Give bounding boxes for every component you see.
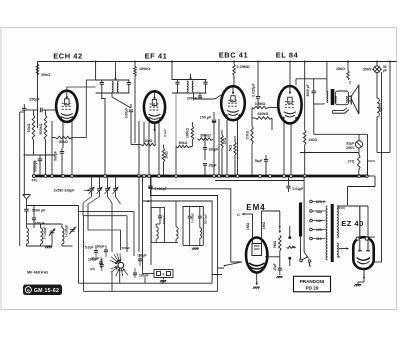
bus terminal 7	[138, 175, 141, 178]
osc coil C	[200, 224, 202, 245]
label EM4	[246, 203, 265, 212]
svg-text:220 V: 220 V	[316, 200, 326, 204]
resistor 5M EM4	[273, 211, 281, 251]
wire lamp drop	[376, 62, 378, 99]
capacitor 3000pF tone	[306, 79, 316, 104]
lamp pilot 350V	[363, 65, 387, 73]
osc bottom rail	[151, 241, 178, 243]
transformer primary taps	[310, 200, 326, 241]
svg-text:(27): (27)	[90, 267, 95, 271]
bus terminal 18	[283, 175, 286, 178]
wire phono left	[143, 270, 155, 274]
resistor 640k	[255, 112, 272, 119]
mains switch	[300, 256, 311, 266]
osc padder capacitor 400pF	[158, 207, 166, 224]
band switch contacts	[110, 253, 128, 276]
tube V2 EF41	[144, 91, 166, 122]
wire EM4 cathode	[255, 273, 258, 286]
capacitor 0.01uF below bus	[286, 176, 303, 192]
osc loop A frame	[151, 207, 164, 242]
wire osc top	[34, 110, 46, 115]
resistor 0.5k EBC41	[245, 118, 253, 176]
tube V6 EZ40 rectifier	[353, 237, 373, 269]
svg-text:180μF: 180μF	[88, 258, 98, 262]
bus terminal 5	[71, 175, 74, 178]
svg-text:47Ω: 47Ω	[223, 137, 227, 144]
capacitor 100uF switch b	[91, 257, 103, 269]
T1 right capacitor	[127, 80, 131, 93]
osc loop C frame	[183, 207, 203, 246]
capacitor 100uF cathode	[200, 112, 216, 176]
svg-text:GM 15-62: GM 15-62	[34, 288, 59, 294]
variable capacitor tuning gang	[89, 176, 119, 197]
trimmer 7-130pF b	[65, 225, 76, 238]
trimmer 7-130pF a	[43, 227, 55, 240]
svg-text:F: F	[163, 272, 165, 276]
arrow cathode EF41	[153, 123, 156, 132]
wire phono drop	[145, 278, 166, 284]
ground EZ40	[354, 279, 364, 286]
wire rail drop 0.025uF	[257, 62, 259, 97]
speaker cone	[349, 85, 359, 114]
tube V1 ECH42	[56, 91, 78, 122]
capacitor 5000pF antenna	[24, 206, 46, 228]
wire HT top	[337, 206, 368, 244]
capacitor 0.05uF	[125, 104, 135, 145]
bus terminal 3	[51, 175, 54, 178]
label EF41	[145, 52, 168, 61]
svg-text:300kΩ: 300kΩ	[200, 134, 211, 138]
wire pot to switch	[224, 262, 242, 267]
wire left drop from rail	[37, 62, 39, 129]
resistor 300k	[198, 134, 214, 141]
wire EM4 top leads	[250, 211, 280, 238]
IF transformer T2 frame	[172, 80, 207, 94]
wire bus end drop	[368, 161, 376, 176]
svg-text:PD 29: PD 29	[306, 286, 319, 291]
svg-text:27Ω: 27Ω	[348, 160, 355, 164]
transformer heater winding	[337, 243, 338, 257]
headphone jack	[333, 108, 349, 113]
wire cap to 0.5M	[257, 98, 259, 107]
tube V3 EBC41	[221, 86, 245, 120]
svg-text:1MΩ: 1MΩ	[165, 151, 169, 159]
IF transformer T1 frame	[96, 80, 130, 93]
wire anode to OT	[296, 62, 327, 92]
wire left column	[22, 104, 26, 196]
wire rail drop EL84 grid	[289, 62, 291, 87]
label EZ40	[341, 219, 364, 228]
T2 tuning arrow	[189, 74, 192, 81]
bus terminal 19	[290, 175, 293, 178]
wire return loop 2	[151, 196, 224, 269]
capacitor 0.025uF coupling	[252, 83, 261, 99]
capacitor 25pF	[203, 164, 217, 177]
field coil 400ohm	[377, 98, 383, 117]
svg-text:400μF: 400μF	[162, 215, 166, 224]
resistor 500k osc	[39, 115, 47, 140]
capacitor switch d	[133, 268, 149, 278]
svg-text:100μF: 100μF	[95, 245, 105, 249]
wire EL84 grid link	[252, 108, 278, 131]
transformer primary winding	[326, 206, 328, 260]
rail junction dots	[95, 61, 391, 63]
svg-text:0.1μF: 0.1μF	[163, 129, 167, 137]
svg-text:25μF: 25μF	[273, 263, 277, 270]
bus terminal 12	[213, 175, 216, 178]
band switch hub	[118, 262, 124, 268]
bus terminal 9	[148, 175, 151, 178]
osc feed arrow	[146, 200, 152, 203]
svg-text:500kΩ: 500kΩ	[39, 123, 43, 134]
svg-text:5kμF: 5kμF	[255, 159, 263, 163]
svg-text:0.05μF: 0.05μF	[125, 108, 129, 118]
wire EZ40 to B+	[368, 72, 382, 262]
resistor 5k	[228, 142, 236, 155]
svg-text:250V: 250V	[346, 146, 355, 150]
EM4 grid arrow C	[237, 213, 250, 217]
svg-text:25pF: 25pF	[209, 164, 217, 168]
bus terminal 4	[62, 175, 65, 178]
osc trimmer 7-30pF	[188, 207, 195, 246]
capacitor 25uF EM4	[273, 263, 283, 278]
svg-text:100pF: 100pF	[35, 222, 46, 226]
gang crisscross	[83, 197, 121, 205]
resistor 30k top left	[36, 64, 50, 77]
antenna coil 1	[27, 228, 29, 246]
resistor 1M AVC	[141, 139, 156, 146]
svg-text:25kΩ: 25kΩ	[336, 67, 345, 71]
wire dropper x142	[142, 176, 144, 270]
wire rail drop to T2	[171, 62, 173, 81]
svg-text:μF: μF	[383, 69, 387, 73]
capacitor 180pF b	[88, 258, 104, 272]
resistor 1M EM4 a	[246, 223, 250, 231]
svg-text:C: C	[237, 213, 240, 217]
bus terminal 13	[218, 175, 221, 178]
svg-text:500μF: 500μF	[122, 246, 131, 250]
svg-text:180pF: 180pF	[209, 148, 219, 152]
wire HT top b	[337, 206, 360, 237]
bus terminal 22	[366, 175, 369, 178]
antenna coil 3	[62, 224, 64, 246]
speaker voice coil	[350, 95, 352, 104]
resistor 150k screen EF41	[134, 66, 151, 76]
transformer secondary winding	[337, 206, 338, 238]
wire EM4 right link	[265, 251, 280, 268]
svg-text:0.25MΩ: 0.25MΩ	[237, 65, 250, 69]
wire EZ40 plate leads	[359, 206, 361, 237]
T2 right capacitor	[203, 80, 207, 94]
resistor 47 ohm	[221, 135, 227, 148]
T2 primary coil	[187, 81, 188, 92]
T2 secondary coil	[192, 81, 193, 92]
bus terminal 1	[33, 175, 36, 178]
wire rail drop to T1	[95, 62, 97, 81]
svg-text:140: 140	[316, 219, 322, 223]
volume pot	[287, 226, 297, 266]
label EBC41	[219, 51, 248, 60]
capacitor 5000pF osc	[33, 155, 42, 176]
transformer core	[331, 204, 334, 262]
osc coil B	[176, 201, 178, 242]
wire top B+ rail	[38, 61, 397, 63]
capacitor 100pF antenna	[27, 206, 46, 229]
band switch feed loops	[79, 203, 135, 256]
svg-text:ECH 42: ECH 42	[53, 52, 82, 61]
tube V5 EM4 magic eye	[246, 238, 267, 273]
svg-text:PRANDONI: PRANDONI	[300, 279, 325, 284]
svg-text:7÷130μF: 7÷130μF	[43, 227, 47, 240]
svg-text:0.025μF: 0.025μF	[252, 83, 256, 97]
capacitor 100uF switch c	[137, 254, 147, 267]
bus terminal 15	[236, 175, 239, 178]
svg-text:0.5MΩ: 0.5MΩ	[255, 102, 266, 106]
wire OT bottom	[314, 103, 324, 104]
svg-text:140Ω: 140Ω	[309, 138, 318, 142]
wire coil tops	[27, 223, 63, 225]
wire antenna coupling	[27, 206, 79, 284]
svg-text:30kΩ: 30kΩ	[41, 73, 50, 77]
svg-text:50kΩ: 50kΩ	[59, 140, 68, 144]
wire T1 to EF41 grid	[112, 93, 131, 108]
svg-text:150 μF: 150 μF	[200, 115, 212, 119]
wire return loop 3	[143, 201, 223, 275]
svg-text:30kΩ: 30kΩ	[27, 123, 31, 132]
wire h180 below bus	[215, 176, 309, 259]
svg-text:1MΩ: 1MΩ	[246, 223, 250, 231]
svg-text:EZ 40: EZ 40	[341, 219, 364, 228]
svg-text:250pF: 250pF	[29, 98, 40, 102]
svg-text:110: 110	[316, 237, 322, 241]
resistor 50k mixer	[55, 136, 72, 144]
output transformer secondary	[336, 96, 348, 102]
resistor 1M EM4 b	[262, 222, 266, 230]
svg-text:7÷30μF: 7÷30μF	[190, 213, 194, 223]
T1 tuning arrow	[114, 62, 117, 81]
ground antenna coils	[27, 233, 53, 249]
wire h155	[24, 154, 56, 156]
T1 left capacitor	[100, 80, 104, 93]
T1 primary coil	[112, 82, 113, 93]
svg-text:7÷130μF: 7÷130μF	[65, 225, 69, 238]
svg-text:350V: 350V	[363, 68, 372, 72]
speaker frame can	[335, 91, 348, 105]
svg-text:0.01μF: 0.01μF	[293, 187, 304, 191]
svg-text:150kΩ: 150kΩ	[139, 67, 150, 71]
bus terminal 8	[143, 175, 146, 178]
svg-text:EBC 41: EBC 41	[219, 51, 248, 60]
svg-text:5MΩ: 5MΩ	[273, 241, 277, 249]
wire below bus right	[348, 176, 376, 205]
osc ground	[192, 248, 199, 250]
antenna coil 2	[41, 224, 43, 246]
resistor 25k tone	[336, 62, 352, 85]
svg-text:0.5kΩ: 0.5kΩ	[245, 130, 249, 139]
resistor 30k osc	[27, 115, 35, 140]
text gang caps	[54, 189, 90, 193]
capacitor 32uF electrolytic	[346, 134, 363, 152]
wire dropper x139	[138, 176, 140, 252]
wire transformer bottom	[301, 256, 341, 257]
tube V4 EL84	[278, 86, 302, 123]
wire right border drop	[377, 62, 390, 153]
resistor 1M vert	[162, 129, 168, 162]
wire EL84 right column	[304, 62, 306, 177]
capacitor 100uF switch a	[95, 245, 108, 258]
wire field coil down	[376, 117, 378, 153]
text MF 468	[27, 271, 48, 275]
T2 left capacitor	[175, 80, 179, 94]
electrolytic T30uF	[148, 176, 167, 196]
svg-text:640kΩ: 640kΩ	[258, 112, 269, 116]
wire EBC41 pin drops	[205, 119, 238, 176]
svg-text:5kΩ: 5kΩ	[228, 144, 232, 151]
wire EL84 pin drops	[284, 122, 291, 177]
T1 secondary coil	[117, 82, 118, 93]
resistor 100k vert	[186, 126, 194, 140]
svg-text:2x530 3x8μF: 2x530 3x8μF	[54, 189, 76, 193]
svg-text:50kΩ: 50kΩ	[179, 141, 188, 145]
wire EZ40 cathode out	[363, 269, 366, 280]
wire bottom h283	[79, 269, 213, 284]
wire ECH42 pin drops	[34, 121, 72, 177]
bus terminal 11	[175, 175, 178, 178]
ground antenna 2	[62, 245, 73, 247]
ground EM4	[253, 287, 260, 289]
output transformer primary	[327, 92, 328, 103]
bus terminal 16	[259, 175, 262, 178]
mains plug	[299, 203, 302, 257]
wire T2 sec to diode	[194, 93, 221, 99]
phono socket box	[154, 270, 173, 285]
capacitor 200pF detector	[187, 93, 202, 101]
svg-text:160: 160	[316, 210, 322, 214]
wire osc feedback	[72, 80, 96, 138]
wire EF41 pin drops	[135, 93, 192, 176]
heater arrow	[339, 247, 349, 250]
wire rail drop x135	[134, 62, 136, 144]
svg-text:125: 125	[316, 228, 322, 232]
resistor 27ohm	[348, 153, 360, 177]
svg-text:500pF: 500pF	[54, 151, 58, 161]
bus label FTe	[32, 179, 38, 183]
antenna	[23, 195, 31, 207]
osc coil A	[156, 224, 160, 242]
svg-text:MF 468 KHz: MF 468 KHz	[27, 271, 48, 275]
output transformer core	[331, 89, 335, 105]
wire bottom h291	[84, 216, 218, 292]
wire outer left column	[20, 112, 25, 246]
svg-text:3000 pF: 3000 pF	[306, 84, 310, 96]
resistor 0.5M grid EL84	[252, 102, 268, 109]
capacitor 500pF	[54, 148, 65, 176]
resistor 50k cathode EF41	[176, 141, 190, 148]
wire h152	[300, 150, 359, 153]
bus terminal 14	[226, 175, 229, 178]
svg-text:5000μF: 5000μF	[203, 214, 207, 225]
svg-text:EF 41: EF 41	[145, 52, 168, 61]
capacitor 5000pF det	[255, 155, 268, 176]
capacitor 180pF	[203, 140, 218, 160]
bus terminal 10	[158, 175, 161, 178]
capacitor 250pF osc grid	[24, 98, 56, 113]
ground bus	[32, 175, 368, 178]
svg-text:FTe: FTe	[32, 179, 38, 183]
GM 15-62 service label	[23, 285, 62, 296]
bus terminal 2	[44, 175, 47, 178]
svg-text:100μF: 100μF	[137, 254, 147, 258]
svg-text:5.0μF: 5.0μF	[85, 246, 94, 250]
wire T1 dropper to bus	[102, 93, 105, 176]
svg-text:100kΩ: 100kΩ	[186, 128, 190, 138]
osc trimmer 5000pF	[198, 207, 207, 225]
label 27ohm switch	[90, 267, 95, 271]
bus terminal 17	[269, 175, 272, 178]
bus terminal 20	[303, 175, 306, 178]
svg-text:EL 84: EL 84	[276, 51, 299, 60]
wire return loop 1	[151, 189, 242, 262]
resistor EL84 cathode	[303, 130, 317, 145]
label EL84	[276, 51, 299, 60]
wire rail drop EBC41 plate	[233, 62, 250, 88]
capacitor 50pF	[85, 246, 98, 258]
wire h134	[314, 104, 368, 176]
wire dropper x151	[150, 176, 152, 265]
svg-text:100μF: 100μF	[139, 274, 149, 278]
bus terminal 6	[104, 175, 107, 178]
svg-text:G: G	[27, 287, 30, 292]
wire ECH42 anode to T1	[67, 87, 96, 91]
wire osc bottoms	[34, 140, 46, 176]
svg-text:1MΩ: 1MΩ	[262, 222, 266, 230]
label ECH42	[53, 52, 82, 61]
PRANDONI PD29 box	[294, 276, 331, 292]
bus terminal 21	[358, 175, 361, 178]
